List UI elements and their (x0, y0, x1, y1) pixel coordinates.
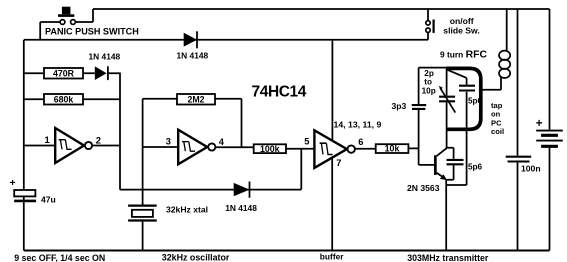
wire 100k out (286, 148, 314, 150)
svg-text:2: 2 (96, 135, 101, 145)
svg-text:32kHz xtal: 32kHz xtal (166, 204, 208, 214)
svg-text:74HC14: 74HC14 (252, 84, 307, 101)
battery B1 (536, 130, 563, 132)
inverter U1a wires (24, 145, 120, 147)
resistor 2M2 feedback (143, 98, 242, 100)
op-amp U1c buffer (314, 130, 347, 168)
resistor 470R (44, 68, 83, 79)
wire 2M2 left vertical / crystal line (142, 99, 144, 205)
pushbutton panic switch plunger (62, 7, 71, 15)
capacitor C7 100n (517, 9, 519, 156)
wire junction vertical x120 (119, 73, 121, 190)
svg-text:100n: 100n (521, 164, 541, 174)
svg-text:5p6: 5p6 (468, 96, 483, 105)
svg-text:tap: tap (491, 101, 503, 110)
wire buffer ground pin7 (331, 158, 333, 251)
wire feedback junction vertical (300, 149, 302, 190)
svg-text:10k: 10k (385, 144, 400, 154)
hysteresis glyph U1c (320, 143, 333, 154)
svg-text:14, 13, 11, 9: 14, 13, 11, 9 (334, 119, 382, 129)
switch S2 on/off slide (427, 9, 429, 21)
inductor PC coil tank loop (446, 68, 481, 129)
hysteresis glyph U1a (59, 140, 72, 150)
resistor 680k (44, 94, 83, 105)
wire 10k to base node (408, 148, 434, 165)
wire tank top (419, 67, 447, 69)
wire 680k row (24, 98, 120, 100)
wire 2M2 right vertical (241, 99, 243, 147)
resistor 10k (376, 144, 409, 153)
wire top supply rail (93, 8, 550, 10)
crystal X1 32kHz (128, 205, 157, 207)
svg-text:6: 6 (358, 137, 363, 147)
wire left rail (23, 40, 25, 190)
diode D3 1N4148 (234, 183, 250, 196)
svg-text:9 turn RFC: 9 turn RFC (440, 50, 487, 61)
svg-text:1N 4148: 1N 4148 (89, 52, 121, 62)
capacitor C5 5p6 tank (447, 70, 467, 85)
trimmer capacitor VC1 2p-10p (446, 68, 448, 96)
transistor Q1 2N3563 (446, 129, 448, 148)
diode D2 1N4148 on supply feed (184, 33, 197, 47)
svg-text:470R: 470R (53, 68, 75, 78)
capacitor C4 3p3 (418, 68, 420, 105)
op-amp U1b inverter wires (143, 146, 254, 148)
svg-text:coil: coil (491, 127, 504, 136)
diode D1 1N4148 (95, 66, 107, 80)
svg-text:slide Sw.: slide Sw. (443, 25, 479, 35)
svg-text:to: to (424, 78, 432, 87)
wire buffer output (355, 148, 376, 150)
svg-text:303MHz transmitter: 303MHz transmitter (407, 253, 489, 262)
svg-text:1N 4148: 1N 4148 (225, 203, 257, 213)
resistor 100k (254, 144, 286, 153)
wire lower supply rail (24, 39, 428, 41)
svg-text:680k: 680k (54, 94, 74, 104)
svg-text:10p: 10p (422, 86, 436, 95)
svg-text:1: 1 (45, 135, 50, 145)
svg-text:2N 3563: 2N 3563 (407, 183, 440, 193)
pushbutton panic switch contacts (60, 20, 65, 25)
svg-text:3: 3 (166, 136, 171, 146)
svg-text:5: 5 (304, 137, 309, 147)
wire buffer supply pin14 (331, 40, 333, 141)
hysteresis glyph U1b (182, 142, 195, 152)
op-amp U1a inverter (55, 128, 84, 163)
svg-text:3p3: 3p3 (392, 101, 407, 111)
svg-text:PANIC PUSH SWITCH: PANIC PUSH SWITCH (45, 26, 139, 36)
wire panic switch left lead (40, 22, 60, 40)
wire ground bottom rail (24, 250, 550, 252)
svg-text:2M2: 2M2 (187, 94, 204, 104)
svg-text:7: 7 (336, 158, 341, 168)
wire 470R row (24, 72, 120, 74)
wire panic switch right lead (75, 9, 93, 22)
wire emitter down (445, 179, 447, 251)
wire diode feedback row (120, 189, 301, 191)
svg-text:47u: 47u (41, 195, 56, 205)
svg-text:5p6: 5p6 (468, 162, 483, 171)
svg-text:1N 4148: 1N 4148 (177, 51, 209, 61)
svg-text:100k: 100k (260, 144, 280, 154)
svg-text:9 sec OFF, 1/4 sec ON: 9 sec OFF, 1/4 sec ON (14, 253, 105, 262)
wire battery positive drop (549, 9, 551, 130)
svg-text:4: 4 (219, 137, 225, 147)
capacitor C6 5p6 feedback (447, 148, 454, 159)
svg-text:32kHz oscillator: 32kHz oscillator (162, 253, 230, 262)
svg-text:+: + (10, 177, 16, 189)
inductor L1 9 turn RFC (506, 9, 508, 51)
capacitor C1 47u (23, 196, 25, 199)
op-amp U1b inverter (178, 130, 207, 165)
svg-text:+: + (536, 118, 543, 130)
svg-text:buffer: buffer (320, 251, 344, 261)
